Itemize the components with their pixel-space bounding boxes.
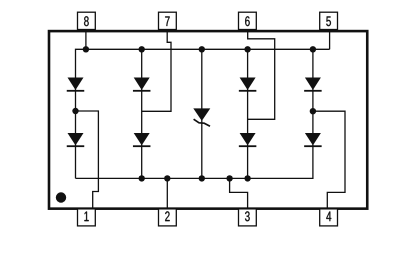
diode D1 (col 1 top) <box>68 78 84 91</box>
pin 4 label <box>326 212 331 222</box>
junction bottom bus / pin 3 <box>226 175 232 181</box>
package outline <box>49 31 367 209</box>
pin 1 indicator dot <box>56 192 66 202</box>
pin 1 box <box>78 209 96 226</box>
wire pin 4 lead <box>313 111 345 208</box>
junction bottom bus / col 3 <box>244 175 250 181</box>
pin 7 box <box>159 12 177 29</box>
diode D4 (col 2 bottom) <box>134 133 150 145</box>
pin 5 label <box>326 16 331 26</box>
wire pin 7 lead <box>142 29 171 111</box>
junction top bus / col 4 <box>310 46 316 52</box>
wire pin 3 lead <box>230 178 248 208</box>
junction top bus / col 2 <box>139 46 145 52</box>
junction col 1 mid / pin 1 <box>72 108 78 114</box>
pin 6 label <box>245 16 249 26</box>
junction bottom bus / col 2 <box>139 175 145 181</box>
zener diode ZD (middle) <box>193 108 210 121</box>
pin 2 box <box>159 209 177 226</box>
pin 8 box <box>78 12 96 29</box>
wire middle column vertical <box>201 49 203 178</box>
junction col 4 mid / pin 4 <box>310 108 316 114</box>
junction top bus / pin 8 <box>83 46 89 52</box>
pin 1 label <box>84 212 88 222</box>
junction bottom bus / pin 2 <box>164 175 170 181</box>
pin 2 label <box>165 211 169 221</box>
wire top bus <box>76 49 330 178</box>
pin 8 label <box>84 16 89 26</box>
diode D7 (col 4 top) <box>305 78 321 91</box>
junction top bus / middle <box>199 46 205 52</box>
pin 4 box <box>320 209 338 226</box>
wire column 3 vertical <box>247 49 249 178</box>
zener cathode bar (bent) <box>194 119 210 126</box>
diode D3 (col 2 top) <box>134 78 150 91</box>
wire pin 5 lead <box>329 29 331 49</box>
wire pin 6 lead <box>248 29 275 120</box>
diode D2 (col 1 bottom) <box>68 133 84 145</box>
pin 3 box <box>239 209 257 226</box>
pin 6 box <box>239 12 257 29</box>
wire pin 8 lead <box>85 30 87 50</box>
diode D5 (col 3 top) <box>240 78 256 91</box>
pin 7 label <box>165 16 169 26</box>
junction bottom bus / middle <box>199 175 205 181</box>
wire pin 1 lead <box>76 111 99 209</box>
diode D6 (col 3 bottom) <box>240 133 256 145</box>
wire bottom bus <box>76 49 313 178</box>
wire column 2 vertical <box>141 49 143 178</box>
pin 5 box <box>320 12 338 29</box>
pin 3 label <box>245 211 250 221</box>
diode D8 (col 4 bottom) <box>305 133 321 145</box>
wire pin 2 lead <box>166 178 168 208</box>
junction top bus / col 3 <box>244 46 250 52</box>
